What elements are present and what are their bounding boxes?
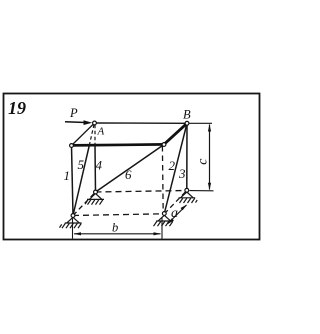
node A: [93, 121, 97, 125]
svg-text:A: A: [97, 126, 105, 138]
svg-text:5: 5: [78, 157, 85, 172]
dimension c: line: [209, 125, 211, 190]
bar 6: [96, 145, 165, 193]
bar 1: [72, 146, 74, 216]
svg-text:3: 3: [178, 166, 186, 181]
wire: right top depth edge (thick): [164, 123, 188, 145]
hidden edge: right bottom depth (dashed): [164, 191, 187, 214]
dimension c: arrow up: [208, 124, 211, 132]
wire: rear top edge A-B: [95, 122, 188, 124]
svg-text:b: b: [112, 221, 118, 235]
svg-text:6: 6: [125, 167, 132, 182]
bar 3: [186, 123, 188, 190]
svg-text:2: 2: [169, 158, 176, 173]
dimension b: extension line left: [72, 219, 74, 239]
force P arrow: [65, 121, 86, 124]
node front-bottom-right: [162, 212, 166, 216]
svg-text:4: 4: [96, 158, 103, 173]
dimension c: arrow down: [208, 183, 211, 191]
bar 4: [94, 146, 97, 192]
support at rear-bottom-left: [85, 194, 104, 205]
frame border: [4, 94, 260, 240]
support at front-bottom-right: [154, 215, 173, 226]
svg-text:B: B: [183, 108, 191, 122]
svg-text:19: 19: [8, 98, 26, 118]
dimension b: arrow left: [74, 232, 82, 235]
dimension c: extension line bottom: [190, 190, 214, 192]
support at front-bottom-left: [60, 217, 82, 228]
dimension a: arrow upper-right: [181, 205, 188, 211]
wire: front top edge (thick): [71, 144, 165, 145]
hidden edge: front right vertical (dashed): [161, 146, 164, 214]
node rear-bottom-left: [94, 190, 98, 194]
bar 5 hidden part (dashed): [89, 125, 94, 146]
bar 2: [164, 123, 187, 213]
wire: left top depth edge FTL-A: [72, 123, 95, 146]
node front-bottom-left: [71, 214, 75, 218]
node front-top-left: [70, 144, 74, 148]
dimension b: arrow right: [154, 232, 162, 235]
support at rear-bottom-right: [179, 192, 198, 203]
bar 5: [73, 145, 89, 215]
dimension c: extension line top: [190, 122, 213, 124]
svg-text:a: a: [171, 206, 178, 221]
node rear-bottom-right: [185, 188, 189, 192]
svg-text:1: 1: [64, 168, 71, 183]
bar 4 hidden part (dashed): [94, 125, 96, 146]
hidden edge: left bottom depth (dashed): [73, 192, 96, 216]
svg-text:c: c: [196, 158, 211, 165]
dimension a: arrow lower-left: [168, 218, 175, 224]
dimension b: line: [74, 233, 161, 235]
svg-text:P: P: [69, 106, 78, 120]
node front-top-right: [162, 143, 166, 147]
hidden edge: front bottom (dashed): [73, 214, 164, 216]
node B: [185, 121, 189, 125]
hidden edge: rear bottom (dashed): [96, 191, 187, 193]
dimension b: extension line right: [161, 217, 163, 239]
dimension a: line: [168, 205, 187, 224]
